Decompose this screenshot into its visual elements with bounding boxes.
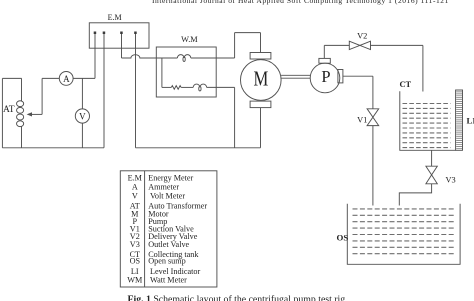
WM current coil <box>177 55 190 62</box>
pipe pump top up <box>323 45 325 58</box>
wire WM inner vertical <box>161 58 163 87</box>
wire supply top to AT <box>2 77 21 79</box>
svg-text:A: A <box>132 183 138 192</box>
wire AT bottom lead <box>21 127 23 148</box>
svg-text:OS: OS <box>337 232 349 242</box>
wire WM return down to rail <box>234 87 236 147</box>
svg-text:OS: OS <box>130 257 141 266</box>
wire motor bottom down to rail <box>260 108 262 148</box>
valve V3 (outlet) <box>426 166 437 184</box>
energy meter E.M box <box>89 23 149 48</box>
motor bottom terminal rect <box>250 101 271 108</box>
svg-text:E.M: E.M <box>128 174 143 183</box>
svg-text:V: V <box>132 192 138 201</box>
svg-text:V1: V1 <box>357 115 367 124</box>
valve V2 (delivery) <box>349 41 370 49</box>
svg-text:P: P <box>321 67 330 86</box>
svg-text:WM: WM <box>127 276 143 285</box>
svg-text:LI: LI <box>467 115 474 125</box>
svg-text:AT: AT <box>3 105 15 115</box>
OS water dashes <box>353 209 456 254</box>
wire EM terminal 4 down to rail <box>135 34 137 148</box>
level indicator LI box <box>456 90 463 150</box>
shaft motor to pump <box>281 75 310 78</box>
svg-text:CT: CT <box>400 80 412 89</box>
wire WM bottom branch left <box>162 86 171 88</box>
wire down to motor top terminal <box>260 33 262 53</box>
wire resistor to voltage coil <box>181 86 193 88</box>
ammeter A <box>59 72 73 86</box>
valve V1 (suction) <box>367 109 379 126</box>
pipe pump right <box>343 75 373 77</box>
pipe to valve V2 <box>324 44 349 46</box>
wire WM top branch right <box>191 57 235 59</box>
supply vertical (mains) <box>1 78 3 147</box>
wire EM terminal 2 down <box>103 34 105 148</box>
svg-text:Watt Meter: Watt Meter <box>150 276 187 285</box>
svg-text:M: M <box>254 67 269 91</box>
svg-text:V: V <box>79 111 86 121</box>
svg-text:Open sump: Open sump <box>148 257 186 266</box>
pipe V3 to open sump <box>399 184 431 206</box>
EM terminal dots <box>94 32 137 35</box>
wire EM terminal 3 down <box>121 34 123 58</box>
pump P body <box>310 63 340 93</box>
legend table box <box>120 171 217 287</box>
svg-text:W.M: W.M <box>181 35 198 44</box>
wire AT top lead <box>21 78 23 101</box>
auto transformer AT coil <box>17 101 24 127</box>
wire ammeter to EM terminal 1 <box>73 34 95 78</box>
svg-text:Volt Meter: Volt Meter <box>150 192 185 201</box>
WM voltage coil <box>193 84 206 91</box>
svg-text:V3: V3 <box>130 240 140 249</box>
svg-text:Ammeter: Ammeter <box>148 183 179 192</box>
svg-text:A: A <box>63 74 70 84</box>
pump right flange <box>338 70 343 83</box>
LI hatch lines <box>456 92 462 149</box>
svg-text:Fig. 1 Schematic layout of th: Fig. 1 Schematic layout of the centrifug… <box>128 294 346 301</box>
pump top flange <box>319 58 330 63</box>
open sump OS walls <box>347 204 460 265</box>
wire voltmeter branch top <box>81 78 83 109</box>
AT wiper arrow <box>27 78 60 116</box>
svg-text:Outlet Valve: Outlet Valve <box>148 240 189 249</box>
motor top terminal rect <box>250 53 271 60</box>
legend table rows <box>127 174 207 285</box>
motor M body <box>240 60 281 101</box>
svg-text:E.M: E.M <box>108 13 122 22</box>
suction pipe into sump <box>372 126 374 206</box>
wattmeter W.M box <box>156 47 216 97</box>
svg-text:V3: V3 <box>446 176 456 185</box>
wire bottom right rail <box>136 147 261 149</box>
wire WM top branch up <box>234 33 236 58</box>
WM multiplier resistor <box>171 86 181 90</box>
wire WM bottom branch right <box>207 86 235 88</box>
pipe down into CT tank <box>422 45 424 91</box>
pipe CT bottom to valve V3 <box>431 150 433 166</box>
wire bottom left rail <box>2 147 104 149</box>
voltmeter V <box>75 109 89 123</box>
wire link to motor top <box>235 32 261 34</box>
collecting tank CT walls <box>400 91 456 150</box>
pipe down to valve V1 <box>372 76 374 109</box>
legend table divider <box>144 171 146 287</box>
CT water dashes <box>403 104 451 148</box>
svg-text:V2: V2 <box>357 32 367 41</box>
wire voltmeter branch bottom <box>81 123 83 148</box>
svg-text:International Journal of Heat: International Journal of Heat Applied So… <box>152 0 449 5</box>
pipe V2 to tank <box>371 44 423 46</box>
wire EM3 to wattmeter with hop over EM4 wire <box>122 55 178 58</box>
svg-text:Energy Meter: Energy Meter <box>148 174 193 183</box>
